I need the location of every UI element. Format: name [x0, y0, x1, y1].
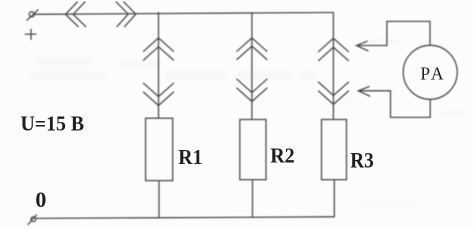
wire below R1 [158, 181, 160, 218]
svg-text:0: 0 [35, 187, 46, 212]
wire branch 2 vertical [251, 13, 253, 120]
plus mark [25, 29, 36, 39]
resistor R3 [322, 120, 347, 180]
svg-text:U=15 В: U=15 В [21, 112, 85, 136]
resistor R2 [240, 120, 266, 180]
svg-text:R1: R1 [178, 145, 202, 169]
terminal plus (top left) [27, 10, 38, 20]
svg-text:R2: R2 [270, 144, 295, 168]
ammeter PA circle [403, 45, 457, 99]
terminal 0 (bottom left) [28, 215, 36, 225]
ammeter bottom lead wire with arrow [358, 87, 430, 118]
faint smudge right/bottom [360, 38, 468, 206]
double-arrow break (branch 3) [319, 38, 349, 104]
wire branch 1 vertical [158, 13, 160, 119]
faint show-through smudge middle [165, 71, 318, 79]
wire below R3 [333, 180, 335, 217]
bottom wire [36, 217, 334, 219]
wire below R2 [252, 180, 254, 218]
wire branch 3 vertical [332, 13, 334, 120]
double-arrow break (top horizontal) [66, 2, 136, 27]
svg-text:R3: R3 [350, 148, 374, 173]
ammeter top lead wire with arrow [357, 21, 431, 50]
double-arrow break (branch 1) [144, 38, 174, 106]
svg-text:PA: PA [420, 64, 446, 84]
top wire [34, 13, 332, 15]
double-arrow break (branch 2) [237, 38, 267, 102]
resistor R1 [146, 118, 173, 180]
faint show-through smudge left [30, 58, 160, 80]
